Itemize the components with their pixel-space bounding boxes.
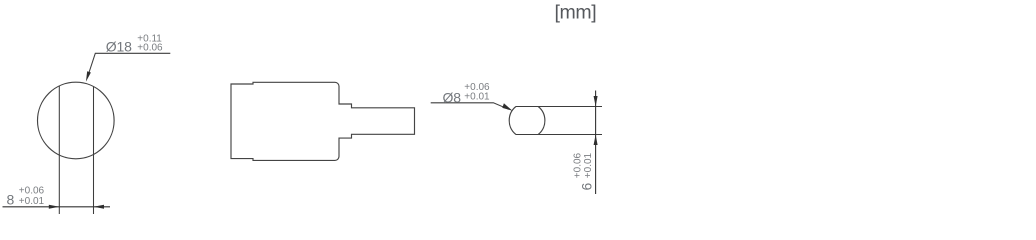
- dimension line for 8 (across flats): [3, 206, 111, 208]
- left flat chord + extension line: [58, 86, 60, 214]
- right flat chord + extension line: [93, 87, 95, 214]
- right detail view: ball-end shaft, top line: [516, 106, 602, 108]
- left end view: circle Ø18: [38, 82, 115, 159]
- rotated dimension text 6 with tolerances: [573, 152, 595, 190]
- bottom line: [516, 134, 602, 136]
- dim arrow right (points left at x=93.5): [94, 205, 105, 209]
- svg-text:Ø8: Ø8: [443, 89, 462, 105]
- svg-text:+0.06: +0.06: [137, 43, 163, 54]
- dim arrow left (points right at x=59.3): [49, 205, 60, 209]
- svg-text:+0.01: +0.01: [583, 152, 594, 178]
- svg-text:+0.01: +0.01: [19, 196, 45, 207]
- svg-text:[mm]: [mm]: [555, 2, 597, 24]
- leader line for Ø8: [431, 103, 509, 110]
- svg-text:6: 6: [578, 183, 594, 191]
- middle side view: stepped body outline: [231, 82, 415, 160]
- leader arrowhead (points to ball): [502, 103, 512, 111]
- leader line for Ø18: [88, 53, 171, 76]
- dim arrow top (points down at y=106.5): [594, 96, 598, 107]
- leader arrowhead (points to circle top): [86, 71, 91, 82]
- dim arrow bottom (points up at y=134.5): [594, 135, 598, 146]
- svg-text:Ø18: Ø18: [106, 39, 132, 55]
- svg-text:+0.01: +0.01: [464, 92, 490, 103]
- ball left arc: [509, 107, 516, 135]
- svg-text:+0.06: +0.06: [19, 186, 45, 197]
- ball right arc (sphere/flat intersection): [538, 107, 545, 135]
- svg-text:8: 8: [7, 192, 15, 208]
- vertical dimension line for 6: [595, 91, 597, 195]
